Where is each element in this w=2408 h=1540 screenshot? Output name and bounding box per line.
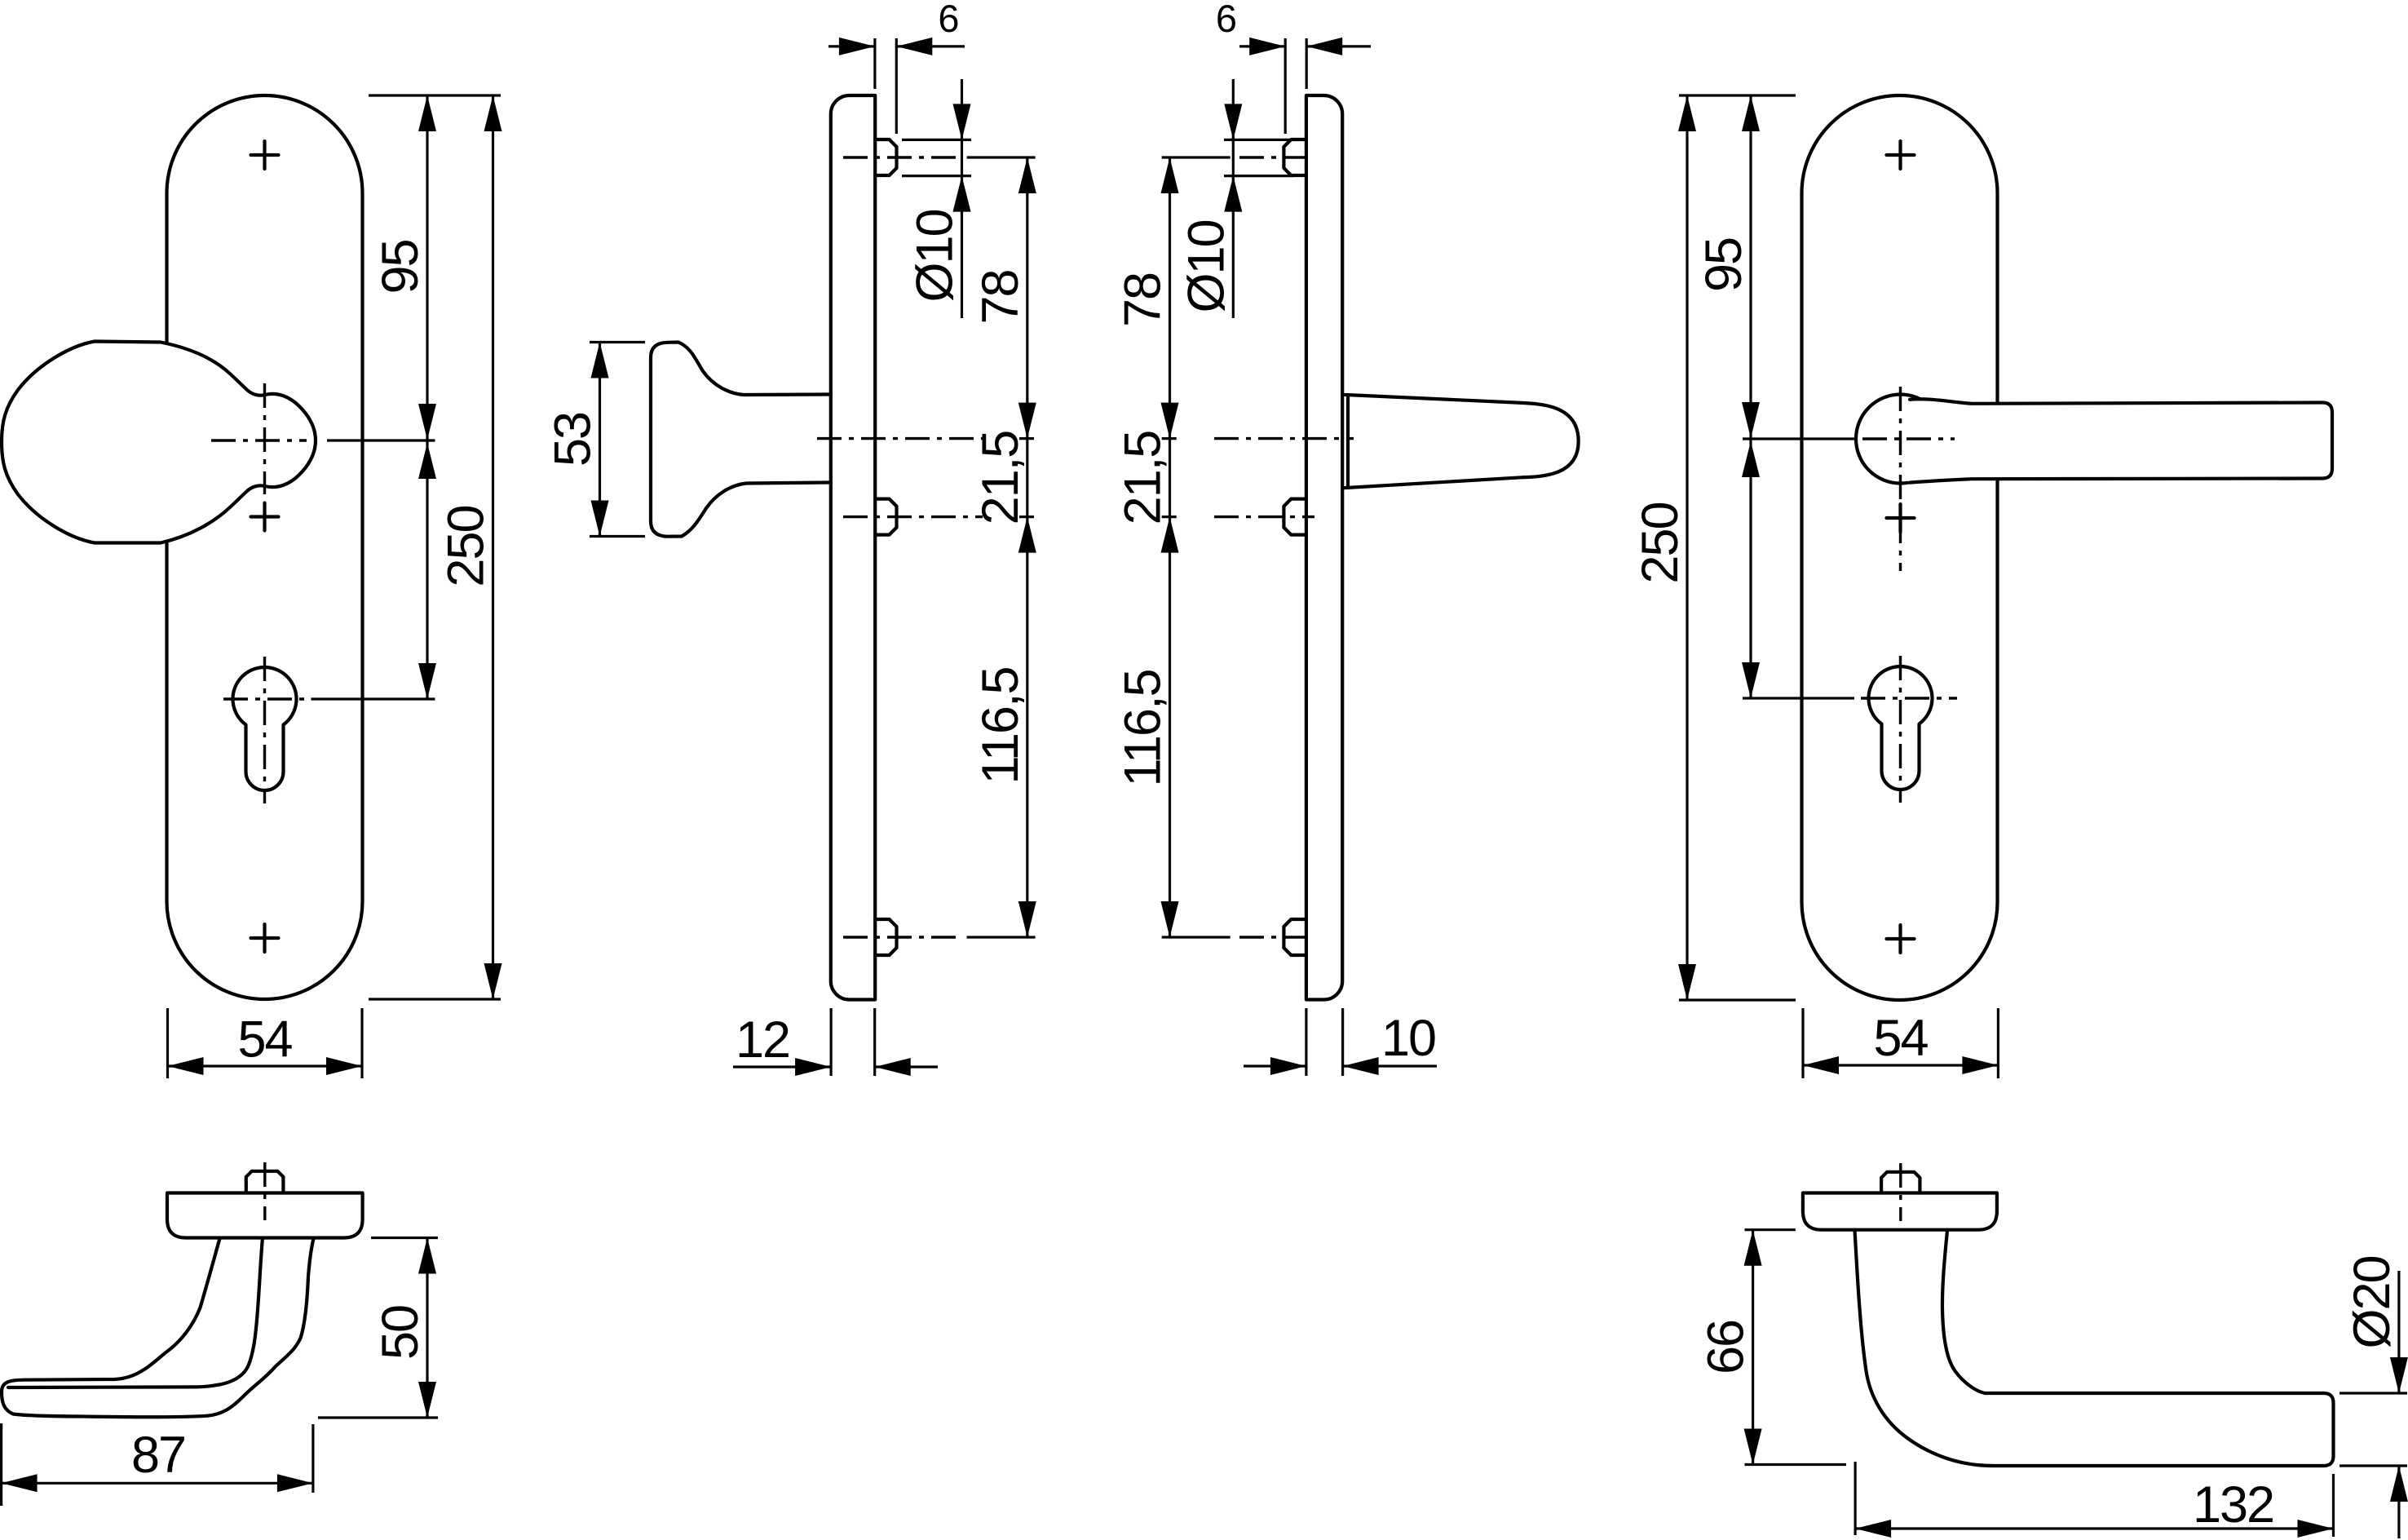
spindle stub [246,1171,284,1193]
lever handle top view [1698,1163,2408,1538]
plate outline (stadium) [1802,95,1998,1000]
svg-text:87: 87 [131,1427,185,1484]
dimension 50 [318,1238,438,1418]
bolt head bottom [1284,919,1306,955]
dimension 54 bottom [1803,1008,1998,1078]
dimension 54 bottom [168,1008,363,1078]
knob handle top view [2,1162,438,1506]
dimension 10 bottom [1306,1008,1343,1076]
dimension line 250 [492,95,494,999]
exterior plate side view with knob profile [545,0,1036,1076]
svg-text:95: 95 [1695,238,1752,292]
knob body outline [2,1238,314,1418]
svg-text:250: 250 [1632,502,1689,583]
knob front outline [2,342,316,543]
lever base plate [1803,1193,1997,1230]
interior plate side view with lever profile [1115,0,1579,1076]
cylinder centerlines [263,657,266,803]
svg-text:21,5: 21,5 [972,431,1029,525]
screw cross bottom [1887,925,1915,953]
stub centerline [1899,1163,1902,1221]
dimension 6 top [875,38,896,134]
svg-text:250: 250 [438,506,495,586]
euro profile cylinder hole [1868,666,1932,790]
exterior security plate with knob, front view [2,95,502,1078]
svg-text:54: 54 [1873,1010,1928,1067]
plate profile mirrored [1306,95,1342,1000]
plate outline (stadium) [167,95,363,999]
knob base plate [167,1193,363,1238]
screw cross middle [251,503,279,531]
svg-text:54: 54 [237,1011,292,1069]
svg-text:6: 6 [1216,0,1237,40]
bolt head middle [1284,499,1306,535]
knob side profile [651,343,831,537]
dimension line 95 / unlabeled chain [426,95,428,699]
lever root line [1346,395,1350,488]
lever neck circle [1856,395,1945,484]
lever body outline [1855,1230,2334,1466]
handle centerlines [1899,387,1902,571]
chain dimension line 78 / 21,5 / 116,5 [1169,157,1171,937]
svg-text:66: 66 [1698,1321,1755,1374]
knob inner contour [8,1238,263,1388]
dimension 132 [1855,1462,2333,1537]
svg-text:116,5: 116,5 [1115,670,1172,787]
bolt head top [1284,139,1306,175]
extension tick top [369,94,501,96]
interior plate with lever handle, front view [1632,95,2332,1078]
bolt head middle [875,499,896,535]
dimension line 250 [1686,95,1688,1000]
lever grip outline [1910,399,2332,482]
svg-text:132: 132 [2193,1476,2273,1533]
svg-text:95: 95 [372,240,429,294]
dimension diameter 10 [902,139,971,175]
bolt head bottom [875,919,896,955]
svg-text:78: 78 [972,270,1029,324]
extension tick top [1679,94,1796,96]
svg-text:116,5: 116,5 [972,668,1029,785]
svg-text:Ø10: Ø10 [907,210,964,302]
extension tick bottom [1679,998,1796,1001]
dimension diameter 10 [1224,139,1293,175]
dimension 12 bottom [831,1008,875,1076]
extension tick bottom [369,998,501,1000]
lever side profile [1342,395,1579,489]
screw cross top [1887,141,1915,169]
svg-text:Ø20: Ø20 [2344,1256,2401,1348]
svg-text:12: 12 [736,1011,789,1069]
svg-text:Ø10: Ø10 [1177,220,1235,312]
plate profile [831,95,875,1000]
svg-text:6: 6 [938,0,959,40]
svg-text:78: 78 [1115,273,1172,327]
dimension diameter 20 [2340,1393,2407,1466]
chain dimension line 78 / 21,5 / 116,5 [1026,157,1028,937]
cylinder centerlines [1899,656,1902,803]
euro profile cylinder hole [232,667,296,790]
screw cross bottom [251,924,279,952]
dimension 87 [2,1423,313,1506]
screw center dashlines [843,156,957,158]
dimension line 95 / unlabeled chain [1749,95,1752,698]
dimension 53 [590,343,645,537]
svg-text:53: 53 [545,413,602,467]
screw cross top [251,141,279,169]
svg-text:50: 50 [372,1306,429,1360]
dimension 6 top [1285,38,1306,134]
dimension 66 [1745,1230,1847,1465]
bolt head top [875,139,896,175]
screw cross middle [1887,504,1915,532]
screw center dashlines [1162,156,1231,158]
lever grip fill [1885,399,2332,482]
svg-text:21,5: 21,5 [1115,431,1172,525]
stub centerline [263,1162,266,1220]
spindle stub [1881,1172,1920,1193]
svg-text:10: 10 [1381,1010,1435,1067]
knob centerlines [263,383,266,494]
